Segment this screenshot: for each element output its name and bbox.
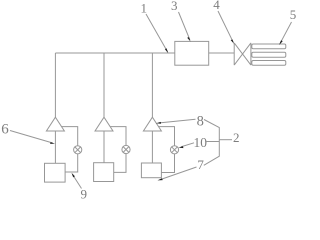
svg-text:5: 5 [290,7,297,22]
svg-text:6: 6 [1,122,9,138]
svg-text:7: 7 [197,157,204,172]
svg-text:10: 10 [194,135,208,150]
svg-text:1: 1 [141,0,148,15]
svg-text:8: 8 [197,113,204,129]
svg-text:2: 2 [233,130,240,145]
svg-text:4: 4 [213,0,220,12]
svg-text:3: 3 [171,0,178,13]
svg-text:9: 9 [81,187,88,200]
